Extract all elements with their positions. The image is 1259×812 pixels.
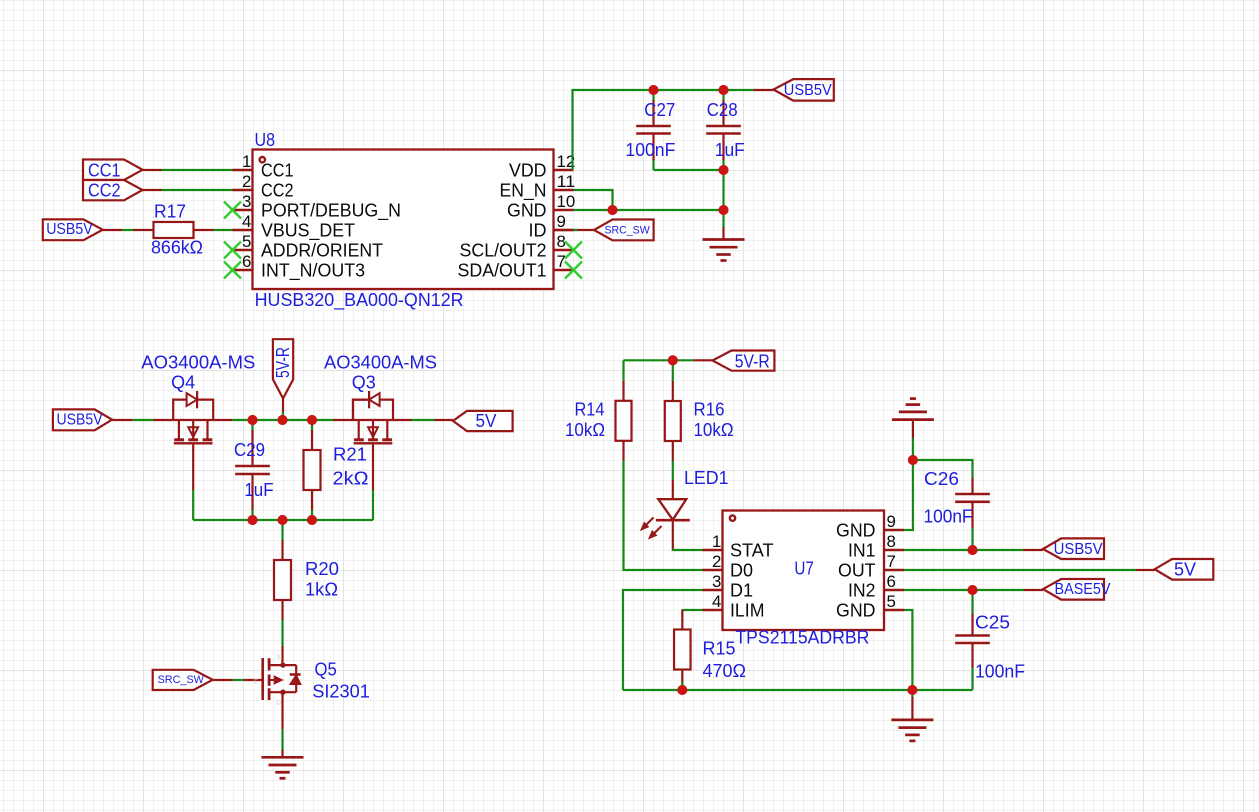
svg-text:STAT: STAT <box>730 540 774 561</box>
svg-text:TPS2115ADRBR: TPS2115ADRBR <box>735 627 869 648</box>
junction dot 5V-R split <box>668 355 678 365</box>
wire GND pin10 <box>574 209 724 211</box>
capacitor C29 1uF <box>251 420 253 431</box>
ground (Q5 source) <box>262 756 304 759</box>
svg-text:PORT/DEBUG_N: PORT/DEBUG_N <box>261 200 401 222</box>
wire Q5 source to ground <box>281 692 283 729</box>
ground (inverted, top right) <box>912 438 914 460</box>
junction dots gate rail <box>248 515 258 525</box>
wire 5V-R rail (R14/R16) <box>624 359 694 361</box>
svg-text:7: 7 <box>887 552 896 571</box>
wire GND pin9 up <box>904 460 913 530</box>
svg-text:2: 2 <box>712 552 721 571</box>
svg-text:INT_N/OUT3: INT_N/OUT3 <box>261 260 365 282</box>
svg-text:ILIM: ILIM <box>730 600 765 621</box>
IC U7 TPS2115ADRBR <box>723 511 885 631</box>
svg-text:G: G <box>254 680 259 686</box>
net flag SRC_SW (Q5 gate) <box>153 670 213 690</box>
svg-text:BASE5V: BASE5V <box>1055 581 1112 598</box>
svg-text:EN_N: EN_N <box>500 180 547 202</box>
ground (U7) <box>911 690 913 697</box>
wire rail to R20 <box>281 520 283 540</box>
wire IN1 pin8 to USB5V <box>904 549 1023 551</box>
wire Q3 gate down <box>372 490 374 520</box>
wire D1 pin3 to gnd rail <box>623 590 703 690</box>
svg-text:AO3400A-MS: AO3400A-MS <box>141 352 255 373</box>
svg-text:C25: C25 <box>975 612 1010 633</box>
net flag 5V (Q3 output) <box>453 411 513 431</box>
wire OUT pin7 to 5V <box>904 569 1136 571</box>
svg-text:9: 9 <box>887 512 896 531</box>
svg-text:USB5V: USB5V <box>784 82 833 99</box>
transistor Q3 AO3400A-MS <box>333 419 353 421</box>
wire LED1 to STAT pin1 <box>672 520 674 550</box>
junction dot C27 top <box>649 85 659 95</box>
junction dots 5V-R rail <box>248 415 258 425</box>
svg-text:SI2301: SI2301 <box>312 681 370 702</box>
svg-text:CC1: CC1 <box>261 160 294 181</box>
wire C28 down to gnd wire <box>722 170 724 210</box>
svg-text:D0: D0 <box>730 560 753 581</box>
svg-text:100nF: 100nF <box>975 661 1025 682</box>
svg-text:866kΩ: 866kΩ <box>151 237 203 258</box>
svg-text:R20: R20 <box>305 558 339 579</box>
svg-text:1kΩ: 1kΩ <box>305 579 338 600</box>
no-connect X pin 3 <box>224 202 241 219</box>
wire R14 to D0 pin2 <box>624 461 703 570</box>
capacitor C27 100nF <box>652 90 654 101</box>
LED LED1 <box>658 499 686 520</box>
junction dot R15/gnd <box>677 685 687 695</box>
svg-text:USB5V: USB5V <box>46 221 93 238</box>
svg-text:SRC_SW: SRC_SW <box>158 674 205 686</box>
IC U8 HUSB320 <box>253 150 554 290</box>
resistor R17 866k <box>134 229 154 231</box>
svg-text:5: 5 <box>242 232 251 251</box>
svg-text:9: 9 <box>557 212 566 231</box>
resistor R14 10k <box>622 360 624 381</box>
svg-text:SDA/OUT1: SDA/OUT1 <box>458 260 547 281</box>
U7 left pins 1-4 <box>703 549 723 551</box>
wire ILIM pin4 to R15 <box>682 609 702 611</box>
net flag USB5V (IN1) <box>1043 538 1104 559</box>
svg-text:7: 7 <box>557 252 566 271</box>
svg-text:CC2: CC2 <box>88 180 121 201</box>
svg-text:100nF: 100nF <box>625 139 675 160</box>
junction dot gnd rail/ground <box>907 685 917 695</box>
svg-text:470Ω: 470Ω <box>703 660 747 681</box>
wire Q3 to 5V flag <box>412 419 435 421</box>
svg-text:5V-R: 5V-R <box>735 350 770 371</box>
junction dot C26/ground <box>908 455 918 465</box>
svg-text:5V-R: 5V-R <box>273 347 293 378</box>
net flag CC2 <box>83 180 143 200</box>
wire USB5V to R17 <box>103 229 122 231</box>
svg-text:1uF: 1uF <box>715 139 745 160</box>
svg-text:2kΩ: 2kΩ <box>333 468 369 489</box>
wire C27 to C28 (gnd net) <box>654 169 724 171</box>
svg-text:LED1: LED1 <box>684 467 729 488</box>
svg-text:R15: R15 <box>703 638 736 659</box>
svg-text:S: S <box>277 655 281 661</box>
wire R16 to LED1 <box>672 461 674 480</box>
junction dot EN_N/GND <box>608 205 618 215</box>
svg-text:GND: GND <box>836 520 876 541</box>
wire EN_N pin11 <box>574 190 613 210</box>
svg-text:100nF: 100nF <box>924 506 973 527</box>
svg-text:GND: GND <box>507 200 547 221</box>
svg-text:D: D <box>277 701 282 707</box>
wire Q4 to Q3 (5V-R rail) <box>232 419 334 421</box>
svg-text:C27: C27 <box>644 99 675 120</box>
junction dot C26/IN1 <box>968 545 978 555</box>
net flag USB5V (top right) <box>773 79 833 101</box>
U7 right pins 9-5 <box>884 529 904 531</box>
svg-text:D1: D1 <box>730 580 753 601</box>
svg-text:AO3400A-MS: AO3400A-MS <box>324 352 437 373</box>
wire ID pin9 to SRC_SW <box>554 229 595 231</box>
bottom gate rail <box>193 519 373 521</box>
no-connect X pin 8 <box>565 242 582 259</box>
net flag USB5V (Q4 input) <box>53 409 112 430</box>
svg-text:VBUS_DET: VBUS_DET <box>261 220 355 242</box>
svg-text:Q4: Q4 <box>171 372 195 393</box>
wire gnd wire to ground symbol <box>722 210 724 227</box>
svg-text:1uF: 1uF <box>244 479 273 500</box>
svg-text:10kΩ: 10kΩ <box>694 419 734 440</box>
wire GND pin5 down <box>904 610 912 690</box>
svg-text:IN1: IN1 <box>848 540 876 561</box>
svg-text:CC1: CC1 <box>88 159 121 180</box>
svg-text:10kΩ: 10kΩ <box>565 419 605 440</box>
wire Q4 gate down <box>192 490 194 520</box>
svg-text:IN2: IN2 <box>848 580 876 601</box>
transistor Q4 AO3400A-MS <box>153 419 173 421</box>
svg-text:10: 10 <box>557 192 576 211</box>
svg-text:R16: R16 <box>694 399 725 420</box>
svg-text:Q3: Q3 <box>352 372 376 393</box>
svg-text:USB5V: USB5V <box>57 412 104 429</box>
svg-text:R17: R17 <box>154 201 186 222</box>
wire CC1 to pin 1 <box>143 169 162 171</box>
svg-text:R14: R14 <box>575 399 605 420</box>
svg-text:1: 1 <box>242 152 251 171</box>
svg-text:5V: 5V <box>476 410 498 431</box>
wire R20 to Q5 drain <box>281 620 283 646</box>
capacitor C25 100nF <box>971 590 973 614</box>
transistor Q5 SI2301 <box>261 658 264 700</box>
svg-text:R21: R21 <box>333 444 367 465</box>
junction dot C25/IN2 <box>968 585 978 595</box>
net flag USB5V (R17 input) <box>43 219 103 240</box>
svg-text:HUSB320_BA000-QN12R: HUSB320_BA000-QN12R <box>255 289 464 311</box>
U8 right pins 12-7 <box>554 169 574 171</box>
svg-text:U8: U8 <box>255 129 276 150</box>
capacitor C26 100nF <box>971 478 973 494</box>
no-connect X pin 7 <box>565 262 582 279</box>
svg-text:3: 3 <box>242 192 251 211</box>
svg-text:2: 2 <box>242 172 251 191</box>
no-connect X pin 6 <box>224 262 241 279</box>
capacitor C28 1uF <box>722 90 724 101</box>
svg-text:5V: 5V <box>1174 559 1197 580</box>
wire R17 to pin 4 <box>214 229 233 231</box>
resistor R20 1k <box>281 540 283 560</box>
svg-text:SCL/OUT2: SCL/OUT2 <box>460 240 547 261</box>
wire IN2 pin6 to BASE5V <box>904 589 1024 591</box>
net flag SRC_SW (U8 ID) <box>594 220 654 241</box>
svg-text:OUT: OUT <box>838 560 876 581</box>
wire CC2 to pin 2 <box>143 189 162 191</box>
wire junction to C26 <box>913 460 973 478</box>
net flag 5V (OUT) <box>1155 559 1214 580</box>
wire VDD pin12 up to USB5V rail <box>573 90 754 170</box>
resistor R16 10k <box>672 360 674 381</box>
svg-text:C28: C28 <box>707 99 738 120</box>
svg-text:SRC_SW: SRC_SW <box>605 225 651 237</box>
svg-text:5: 5 <box>887 592 896 611</box>
svg-text:ID: ID <box>529 220 547 241</box>
net flag 5V-R (vertical) <box>273 339 293 398</box>
net flag 5V-R (right) <box>713 351 775 371</box>
resistor R21 2k <box>311 420 313 430</box>
resistor R15 470 <box>681 610 683 630</box>
svg-text:GND: GND <box>836 600 876 621</box>
svg-text:Q5: Q5 <box>315 659 337 680</box>
svg-text:CC2: CC2 <box>261 180 294 201</box>
svg-text:8: 8 <box>557 232 566 251</box>
junction dot C28/C27 mid <box>719 165 729 175</box>
svg-text:VDD: VDD <box>509 160 547 181</box>
wire USB5V to Q4 <box>112 419 132 421</box>
net flag BASE5V <box>1043 579 1104 600</box>
no-connect X pin 5 <box>224 242 241 259</box>
svg-text:ADDR/ORIENT: ADDR/ORIENT <box>261 240 383 261</box>
svg-text:3: 3 <box>712 572 721 591</box>
U8 left pins 1-6 <box>233 169 253 171</box>
svg-text:C26: C26 <box>924 468 959 489</box>
svg-text:4: 4 <box>242 212 251 231</box>
svg-text:1: 1 <box>712 532 721 551</box>
wire SRC_SW to Q5 gate <box>213 679 233 681</box>
junction dots overlay <box>649 85 659 95</box>
svg-text:11: 11 <box>557 172 576 191</box>
svg-text:4: 4 <box>712 592 721 611</box>
gnd rail bottom <box>623 689 973 691</box>
svg-text:C29: C29 <box>234 439 265 460</box>
ground (U8 bypass) <box>703 238 745 241</box>
junction dot GND/ground <box>719 205 729 215</box>
svg-text:8: 8 <box>887 532 896 551</box>
junction dot C28 top <box>719 85 729 95</box>
svg-text:6: 6 <box>242 252 251 271</box>
wire 5V-R stem <box>282 398 284 412</box>
net flag CC1 <box>83 160 143 181</box>
svg-text:USB5V: USB5V <box>1054 541 1104 558</box>
svg-text:6: 6 <box>887 572 896 591</box>
svg-text:U7: U7 <box>794 558 814 579</box>
